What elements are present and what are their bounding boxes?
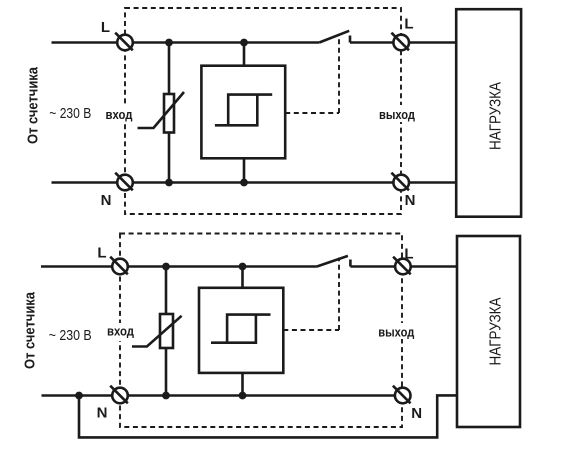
svg-text:НАГРУЗКА: НАГРУЗКА (488, 297, 505, 365)
svg-text:выход: выход (379, 107, 416, 122)
svg-text:вход: вход (106, 107, 134, 122)
svg-text:вход: вход (107, 324, 135, 339)
svg-text:N: N (411, 405, 422, 422)
svg-text:НАГРУЗКА: НАГРУЗКА (488, 82, 505, 150)
svg-text:L: L (101, 19, 110, 36)
svg-text:N: N (405, 192, 416, 209)
svg-text:~ 230 В: ~ 230 В (49, 106, 91, 122)
svg-text:L: L (97, 244, 106, 261)
svg-text:L: L (404, 245, 413, 262)
svg-text:От счетчика: От счетчика (22, 291, 39, 369)
svg-text:L: L (404, 16, 413, 33)
svg-text:~ 230 В: ~ 230 В (49, 328, 92, 344)
svg-text:N: N (97, 405, 108, 422)
svg-text:выход: выход (378, 324, 415, 339)
svg-text:От счетчика: От счетчика (25, 66, 42, 144)
svg-text:N: N (101, 192, 112, 209)
